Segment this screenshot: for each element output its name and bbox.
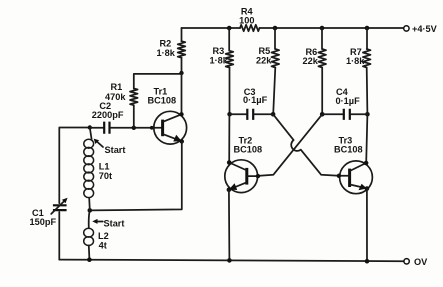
node base wire at Tr1: [150, 126, 154, 130]
node L1 bottom tap: [88, 208, 93, 213]
transistor Tr1 BC108: [154, 111, 187, 144]
svg-text:BC108: BC108: [234, 145, 263, 155]
capacitor C2 2200pF: [90, 127, 103, 129]
wire R7 node to Tr3 collector: [366, 114, 367, 163]
wire cross-coupling C4 left to Tr2 base: [258, 114, 322, 176]
wire cross-coupling C3 right to Tr3 base (with hop): [273, 114, 339, 175]
node C3 right: [271, 112, 276, 117]
svg-text:470k: 470k: [105, 92, 126, 102]
resistor R5 22k: [273, 26, 278, 31]
wire left branch top: [59, 128, 90, 204]
node C4 left: [320, 112, 325, 117]
svg-text:OV: OV: [414, 257, 428, 267]
svg-text:4t: 4t: [99, 241, 107, 251]
transistor Tr2 BC108: [225, 160, 258, 193]
svg-text:1·8k: 1·8k: [157, 48, 176, 58]
terminal +4.5V: [404, 26, 409, 31]
wire Tr2 emitter to 0V: [228, 190, 231, 261]
capacitor C3 0.1uF: [230, 113, 247, 115]
node L1 top / C2 junction: [88, 125, 92, 129]
resistor R4: [240, 25, 260, 31]
wire Tr1 emitter return: [90, 141, 182, 210]
svg-text:+4·5V: +4·5V: [412, 24, 438, 34]
wire Tr3 emitter to 0V: [366, 189, 368, 262]
svg-text:Start: Start: [104, 218, 125, 228]
wire R3 node to Tr2 collector: [228, 114, 230, 162]
svg-text:22k: 22k: [303, 56, 319, 66]
svg-text:0·1µF: 0·1µF: [243, 95, 268, 105]
svg-text:BC108: BC108: [148, 96, 177, 106]
terminal 0V: [404, 259, 409, 264]
svg-text:70t: 70t: [99, 171, 112, 181]
resistor R3 1.8k: [227, 26, 232, 31]
svg-text:100: 100: [239, 16, 254, 26]
inductor L1 70t: [90, 128, 92, 140]
svg-text:R1: R1: [111, 82, 123, 92]
node R1 bottom on base wire: [132, 126, 136, 130]
svg-text:1·8k: 1·8k: [346, 56, 365, 66]
wire bottom 0V rail: [59, 260, 404, 262]
capacitor C1 (variable) 150pF: [53, 205, 67, 210]
node C3 left: [227, 112, 232, 117]
wire top +4.5V rail: [182, 27, 228, 29]
label Start (L2): [97, 221, 103, 223]
resistor R2 1.8k: [181, 28, 183, 41]
capacitor C4 0.1uF: [322, 113, 343, 115]
label Start (L1): [97, 141, 103, 147]
resistor R6 22k: [320, 26, 325, 31]
svg-text:1·8k: 1·8k: [210, 56, 229, 66]
transistor Tr3 BC108: [340, 161, 373, 194]
resistor R1 470k: [133, 105, 135, 128]
inductor L2 4t: [89, 210, 90, 228]
svg-text:BC108: BC108: [334, 145, 363, 155]
wire collector drop: [181, 73, 183, 114]
node C4 right: [365, 112, 370, 117]
svg-text:Start: Start: [105, 145, 126, 155]
node R2/R1/collector: [179, 71, 183, 75]
svg-text:0·1µF: 0·1µF: [336, 96, 361, 106]
svg-text:2200pF: 2200pF: [92, 110, 124, 120]
wire rail right of R4: [260, 27, 404, 29]
svg-text:22k: 22k: [256, 56, 272, 66]
resistor R7 1.8k: [365, 26, 370, 31]
svg-text:150pF: 150pF: [30, 217, 57, 227]
